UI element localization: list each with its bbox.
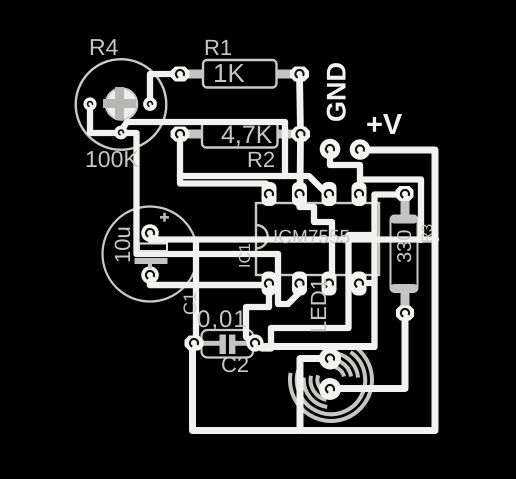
wire IC pad H stub to x374 [360, 280, 375, 286]
C1 plate stub [148, 264, 152, 269]
svg-text:1K: 1K [213, 58, 245, 88]
pad R3 top [396, 186, 414, 201]
wire R3 bottom pad to buzzer pad B [331, 315, 405, 389]
wire C2 left pad up to IC pad A [193, 241, 197, 343]
wire C2 right pad band to x374 vertical [258, 343, 373, 350]
wire C1- to IC pad E [150, 275, 267, 285]
via V1 GND [320, 139, 341, 160]
wire y254 hook to IC pad F [278, 254, 299, 304]
wire buzzer pad A left-down to bottom rail [300, 359, 330, 431]
pad buzzer B [319, 378, 341, 400]
pad R4.3 [114, 126, 128, 140]
svg-text:R1: R1 [204, 35, 232, 60]
pad C2 left (hex) [185, 336, 204, 351]
svg-text:R4: R4 [89, 34, 119, 60]
pad R2 right (hex) [291, 127, 310, 142]
svg-text:+V: +V [366, 109, 403, 141]
wire R4 bottom junction down to y254 [121, 133, 278, 254]
IC notch [256, 225, 268, 248]
pad R4.2 wiper [143, 97, 157, 111]
C1 plate filled [135, 258, 168, 264]
wire net A branch to IC pad A [180, 176, 269, 188]
svg-text:ICM7555: ICM7555 [273, 227, 350, 248]
pad C1+ [141, 224, 159, 242]
wire C2 right pad up-jog to y328 run [256, 235, 374, 349]
IC pads bottom row [262, 272, 277, 296]
pad C2 right [246, 334, 263, 351]
C1 plus mark [160, 213, 169, 222]
pad R2 left (hex) [171, 127, 190, 142]
wire +V jog from pad D stem [360, 180, 421, 241]
wire buzzer pad A up stub [327, 347, 333, 359]
potentiometer R4 outline [76, 59, 167, 150]
resistor R1 body [188, 60, 292, 88]
wire x374 vertical 330top to buzzer area [375, 195, 406, 348]
pad R1 left (hex) [171, 67, 190, 82]
via V2 +V [350, 139, 371, 160]
wire R4 right pad to R1 left pad [150, 74, 180, 103]
wire R4 bottom pad to node under R2 (net A) [121, 122, 285, 176]
resistor R3 body (330) [391, 199, 418, 308]
R4 wiper disk [106, 88, 138, 120]
svg-text:4,7K: 4,7K [221, 121, 273, 149]
C1 plate hollow [139, 244, 167, 252]
svg-text:GND: GND [322, 62, 352, 122]
R4 wiper cross [103, 87, 136, 120]
pad C1- [141, 266, 159, 284]
wire R1 right - R2 right - IC pad B [300, 74, 301, 195]
svg-text:10u: 10u [110, 226, 135, 263]
pad R4.1 [83, 97, 96, 110]
svg-text:LED1: LED1 [306, 278, 331, 333]
wire stair IC pad B to pad G [300, 198, 333, 283]
wire via V1 to IC pad D [330, 150, 360, 193]
pad buzzer A [319, 348, 341, 370]
wire net A stair to IC pin pad C [285, 176, 329, 193]
svg-text:330: 330 [394, 230, 416, 263]
svg-text:0,01: 0,01 [197, 306, 248, 333]
IC pads top row [262, 182, 277, 206]
wire C1+ long horizontal to +V vertical [150, 236, 436, 240]
svg-text:IC1: IC1 [237, 243, 254, 268]
svg-text:100K: 100K [85, 146, 139, 172]
IC U1 outline [256, 203, 379, 275]
resistor R2 body [189, 122, 292, 148]
pad R1 right (hex) [290, 67, 309, 82]
wire R4 left pad to R4 bottom pad [90, 104, 121, 133]
wire IC pad E hook to C2 right pad [246, 288, 269, 343]
capacitor C2 body [198, 330, 256, 358]
capacitor C1 outline [103, 207, 198, 302]
svg-text:R3: R3 [419, 224, 436, 243]
pad R3 bottom [396, 306, 414, 321]
svg-text:R2: R2 [247, 147, 275, 172]
wire +V main: via V2 right, down, bottom rail [193, 150, 436, 431]
buzzer SP1 concentric rings [290, 349, 372, 421]
wire R2 left pad down then right (net A) [180, 135, 285, 176]
svg-text:C2: C2 [221, 352, 249, 377]
